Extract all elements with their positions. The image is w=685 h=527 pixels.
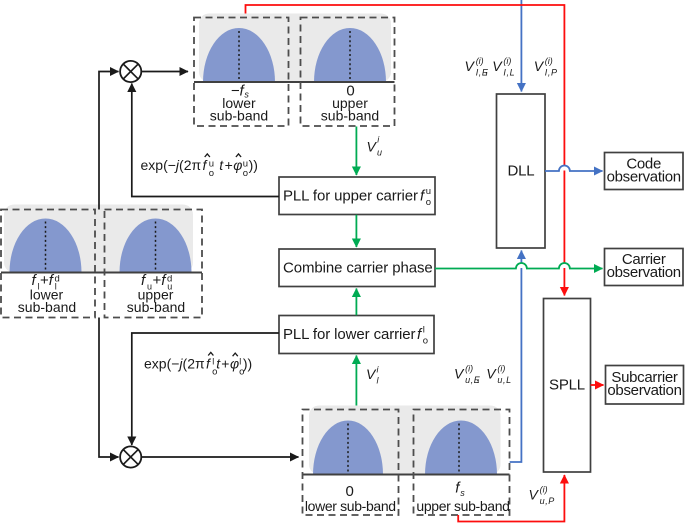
wire PLL upper to Combine [355,215,357,247]
svg-text:exp(−j(2π: exp(−j(2π [144,356,205,372]
svg-text:φ: φ [230,356,239,372]
svg-text:(i): (i) [503,56,511,66]
svg-text:V: V [534,58,545,74]
svg-text:o: o [243,168,248,179]
svg-text:f: f [206,356,212,372]
svg-text:o: o [423,335,428,346]
bottom spectrum baseline axis [303,474,510,476]
bottom spectrum background [309,406,501,475]
svg-text:s: s [460,488,465,498]
bottom spectrum lower sub-band bump [313,421,383,475]
svg-text:observation: observation [607,264,681,281]
svg-text:(i): (i) [497,364,505,374]
label -fs lower sub-band [210,82,268,123]
svg-text:o: o [426,197,431,208]
label Vl i [366,365,380,386]
svg-text:V: V [492,58,503,74]
label fu+fud upper sub-band [127,272,185,315]
left spectrum upper sub-band dashed box [105,210,203,318]
wire input to M1 [99,72,119,210]
left spectrum baseline axis [1,272,202,274]
svg-text:sub-band: sub-band [210,108,268,124]
label Vu i [367,135,383,158]
wire PLL upper LO to M1 [132,84,279,197]
box DLL [497,94,546,248]
svg-text:lower sub-band: lower sub-band [305,498,396,514]
svg-text:exp(−j(2π: exp(−j(2π [141,157,202,173]
bottom spectrum upper sub-band bump [425,421,497,475]
left spectrum lower sub-band dashed box [1,210,95,318]
wire SPLL to Subcarrier observation [591,384,604,386]
svg-text:observation: observation [607,382,681,399]
label exp lower LO [144,352,252,377]
wire M1 to top spectrum [142,71,188,73]
wire PLL lower to Combine [355,289,357,316]
svg-text:V: V [454,366,465,382]
svg-text:+: + [225,157,233,173]
multiplier mixer M2 [120,446,141,467]
top spectrum upper sub-band bump [314,28,386,82]
label VuP [529,484,555,506]
box SPLL [544,299,591,473]
top spectrum lower sub-band dashed box [194,18,289,127]
svg-text:sub-band: sub-band [127,299,185,315]
svg-text:I,P: I,P [545,68,558,78]
svg-text:l: l [239,357,241,367]
wire DLL to Code observation [545,166,603,172]
svg-text:l: l [212,357,214,367]
wire M2 to bottom spectrum [142,456,299,458]
svg-text:sub-band: sub-band [18,299,76,315]
svg-text:upper sub-band: upper sub-band [416,498,509,514]
box PLL for lower carrier [279,316,434,354]
svg-text:SPLL: SPLL [549,377,585,394]
svg-text:(i): (i) [540,484,548,494]
svg-text:V: V [486,366,497,382]
wire top spectrum to SPLL [246,5,565,296]
svg-text:i: i [377,135,380,145]
svg-text:f: f [203,157,209,173]
box Code observation [605,153,684,190]
svg-text:,: , [485,61,489,77]
svg-text:Combine carrier phase: Combine carrier phase [283,259,433,276]
wire top spectrum to PLL upper [355,127,357,176]
label fl+fld lower sub-band [18,272,76,315]
svg-text:PLL for lower carrier: PLL for lower carrier [283,326,415,343]
label 0 upper sub-band [321,82,379,123]
label VIE VIL [465,56,516,78]
svg-text:observation: observation [607,169,681,186]
wire bottom spectrum to DLL [510,251,522,463]
left spectrum upper sub-band bump [120,218,192,272]
bottom spectrum lower sub-band dashed box [303,410,399,516]
label fs upper sub-band [416,480,509,515]
svg-text:(i): (i) [476,56,484,66]
wire correlator outputs to DLL [520,0,522,92]
box PLL for upper carrier [279,177,435,215]
svg-text:(i): (i) [465,364,473,374]
top spectrum upper sub-band dashed box [301,18,395,127]
svg-text:)): )) [249,157,258,173]
top spectrum lower sub-band bump [203,28,275,82]
wire bottom spectrum to PLL lower [355,356,357,406]
svg-text:PLL for upper carrier: PLL for upper carrier [283,188,418,205]
svg-text:l: l [423,324,425,335]
svg-text:DLL: DLL [508,163,535,180]
wire PLL lower LO to M2 [132,333,279,445]
box Combine carrier phase [279,249,435,287]
svg-text:i: i [377,365,380,375]
svg-text:u,L: u,L [497,375,511,385]
svg-text:V: V [529,487,540,503]
svg-text:(i): (i) [545,56,553,66]
svg-text:,: , [476,368,480,384]
svg-text:u: u [377,147,382,157]
svg-text:V: V [367,138,378,154]
svg-text:l: l [377,376,380,386]
svg-text:u: u [426,186,431,197]
label VuE VuL [454,364,512,386]
svg-text:+: + [221,356,229,372]
svg-text:o: o [209,168,214,179]
label 0 lower sub-band [305,483,396,514]
wire Combine to Carrier observation [435,263,603,269]
bottom spectrum upper sub-band dashed box [414,410,510,516]
multiplier mixer M1 [120,61,141,82]
left spectrum background [4,205,193,273]
top spectrum baseline axis [194,81,395,83]
wire bottom spectrum to SPLL [458,475,564,522]
svg-text:)): )) [243,356,252,372]
svg-text:V: V [366,366,377,382]
svg-text:sub-band: sub-band [321,108,379,124]
top spectrum background [199,14,391,83]
svg-text:I,L: I,L [503,68,515,78]
label VIP [534,56,558,78]
wire input to M2 [99,318,119,458]
svg-text:φ: φ [233,157,242,173]
svg-text:V: V [465,58,476,74]
label exp upper LO [141,154,258,179]
box Carrier observation [605,249,684,286]
svg-text:t: t [219,157,224,173]
left spectrum lower sub-band bump [10,218,82,272]
svg-text:u,P: u,P [540,496,555,506]
box Subcarrier observation [606,366,684,405]
